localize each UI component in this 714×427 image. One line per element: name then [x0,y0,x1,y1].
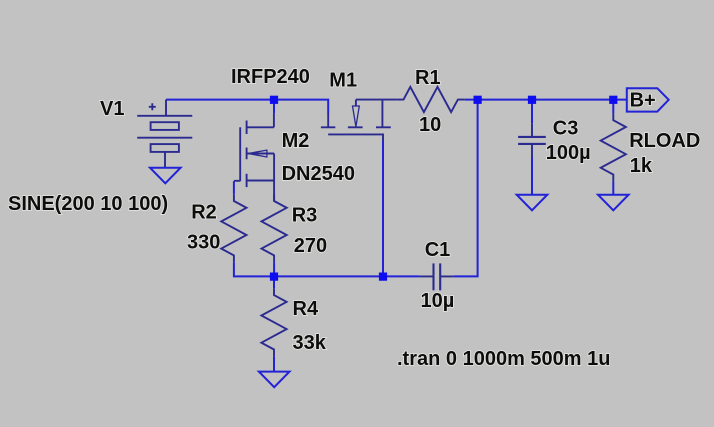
wire R3 bottom to junction [273,262,275,276]
wire R4 taps [273,280,275,371]
resistor R4 [261,288,286,356]
svg-text:270: 270 [294,235,327,257]
svg-text:10µ: 10µ [421,290,455,312]
svg-text:V1: V1 [100,98,124,120]
wire output node down to C1 right plate [454,100,478,277]
wire M2 drain to top net junction [273,100,275,114]
battery V1 [137,100,192,168]
ground below RLOAD [598,195,629,211]
svg-text:.tran 0 1000m 500m 1u: .tran 0 1000m 500m 1u [397,348,610,370]
svg-text:33k: 33k [293,332,327,354]
junction M2 drain on top net [270,96,278,104]
resistor R1 [397,87,465,112]
svg-text:IRFP240: IRFP240 [231,66,310,88]
svg-text:C3: C3 [553,117,579,139]
wire bottom net R2 bottom to C1 left lead [234,262,420,276]
resistor R3 [262,194,287,262]
ground below V1 [150,168,181,184]
mosfet M2 DN2540 [234,113,274,201]
svg-text:10: 10 [419,114,441,136]
svg-text:R3: R3 [292,205,318,227]
ground below C3 [517,195,548,211]
junction RLOAD tap [609,96,617,104]
node flag B+ [627,88,669,111]
ground below R4 [259,372,290,388]
svg-text:M2: M2 [282,130,310,152]
wire RLOAD taps [612,100,614,195]
svg-text:100µ: 100µ [546,142,591,164]
svg-text:R4: R4 [293,298,319,320]
resistor R2 [221,194,246,262]
junction C3 tap [528,96,536,104]
wire node out: R1 right to B+ flag [465,99,627,101]
wire M1 gate down to bottom net [382,140,384,276]
mosfet M1 IRFP240 [321,100,397,141]
junction output node top [474,96,482,104]
svg-text:R1: R1 [415,67,441,89]
svg-text:SINE(200 10 100): SINE(200 10 100) [8,193,168,215]
svg-text:M1: M1 [329,70,357,92]
svg-text:R2: R2 [191,202,217,224]
capacitor C1 [420,263,454,290]
svg-text:B+: B+ [630,90,656,112]
svg-text:330: 330 [187,232,220,254]
junction bottom net R3 R4 [270,273,278,281]
wire C3 taps [531,100,533,195]
svg-text:1k: 1k [630,155,653,177]
junction bottom net M1 gate [379,273,387,281]
svg-text:DN2540: DN2540 [282,163,355,185]
svg-text:RLOAD: RLOAD [629,130,700,152]
wire top net V1 plus to M1 drain [166,100,328,114]
capacitor C3 [518,123,546,157]
wire M2 gate to R2 top [233,181,235,194]
svg-text:C1: C1 [425,239,451,261]
resistor RLOAD [601,113,626,181]
